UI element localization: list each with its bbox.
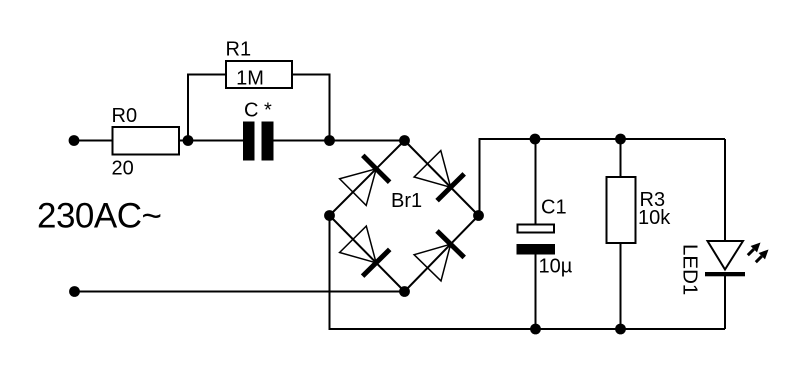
node R3 bottom junction bbox=[615, 324, 626, 335]
wire DC minus: left vertex down and along bottom rail bbox=[330, 216, 726, 330]
LED arrow 2 bbox=[756, 250, 769, 263]
node bridge right vertex bbox=[473, 210, 484, 221]
diode D-bottom-right bbox=[414, 231, 464, 281]
wire R1 to right junction bbox=[292, 75, 330, 141]
diode D-top-right bbox=[414, 151, 464, 201]
resistor R0 bbox=[112, 105, 180, 180]
LED arrow 1 bbox=[748, 243, 761, 256]
wire C1 top lead bbox=[535, 139, 537, 224]
resistor R1 bbox=[226, 39, 293, 90]
svg-text:LED1: LED1 bbox=[679, 244, 702, 295]
wire R3 top lead bbox=[620, 139, 622, 177]
node junction right of R0 bbox=[183, 135, 194, 146]
svg-text:10µ: 10µ bbox=[539, 256, 573, 278]
capacitor C1 bbox=[517, 197, 573, 278]
node junction C*/R1 bbox=[324, 135, 335, 146]
svg-text:R0: R0 bbox=[112, 105, 138, 127]
wire terminal to R0 bbox=[74, 140, 113, 142]
wire up to R1 branch bbox=[188, 75, 226, 141]
node top-left AC terminal bbox=[69, 135, 80, 146]
node C1 bottom junction bbox=[530, 324, 541, 335]
svg-text:R1: R1 bbox=[226, 39, 252, 61]
svg-text:C *: C * bbox=[244, 100, 272, 122]
wire LED bottom lead bbox=[724, 276, 726, 329]
resistor R3 bbox=[607, 177, 672, 243]
wire DC plus: right vertex up and along top rail bbox=[480, 139, 726, 216]
svg-text:230AC~: 230AC~ bbox=[37, 197, 161, 236]
svg-text:Br1: Br1 bbox=[391, 190, 422, 212]
wire LED top lead bbox=[724, 139, 726, 241]
diode D-bottom-left bbox=[340, 226, 390, 276]
svg-text:10k: 10k bbox=[638, 207, 671, 229]
wire C1 bottom lead bbox=[535, 255, 537, 330]
node bridge top vertex bbox=[399, 135, 410, 146]
capacitor C* bbox=[243, 100, 274, 161]
wire lower AC to bridge bottom bbox=[75, 291, 405, 293]
node C1 top junction bbox=[530, 134, 541, 145]
node bottom-left AC terminal bbox=[69, 286, 80, 297]
LED LED1 bbox=[679, 241, 746, 295]
wire C* to bridge top bbox=[274, 140, 405, 142]
node R3 top junction bbox=[615, 134, 626, 145]
node bridge left vertex bbox=[324, 210, 335, 221]
bridge Br1 diamond wires bbox=[330, 141, 479, 292]
svg-text:1M: 1M bbox=[236, 68, 264, 90]
diode D-top-left bbox=[340, 155, 390, 205]
node bridge bottom vertex bbox=[399, 286, 410, 297]
svg-text:C1: C1 bbox=[541, 197, 567, 219]
svg-text:20: 20 bbox=[112, 158, 134, 180]
wire R3 bottom lead bbox=[620, 243, 622, 329]
wire R0 to junction bbox=[179, 140, 243, 142]
